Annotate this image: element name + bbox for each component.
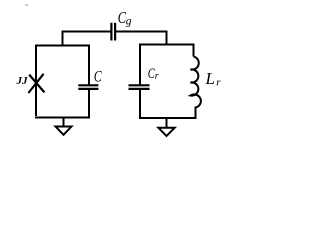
wire: right loop bottom horizontal [139,117,197,119]
capacitor C [78,85,98,89]
wire: left ground stem [63,118,65,127]
wire: right coupling stub vertical [166,32,168,46]
wire: left loop right vertical lower segment [88,90,90,118]
wire: top coupling horizontal left of Cg [62,31,111,33]
svg-text:L: L [205,69,215,88]
capacitor Cr [129,85,150,89]
label Cr [148,64,159,82]
wire: right loop top horizontal [139,44,195,46]
wire: right loop left vertical lower segment [139,90,141,119]
wire: right ground stem [166,118,168,128]
inductor Lr coil [191,57,201,108]
svg-text:r: r [216,77,221,89]
label Lr [205,69,222,89]
wire: left loop top horizontal [35,45,90,47]
svg-text:JJ: JJ [16,75,29,87]
wire: left coupling stub vertical [62,32,64,47]
wire: right loop right vertical lower stem [195,107,197,119]
wire: top coupling horizontal right of Cg [116,31,168,33]
transistor JJ (Josephson junction cross) [28,74,44,93]
capacitor Cg [111,23,115,41]
label Cg [118,10,132,28]
wire: left loop left vertical [35,46,37,117]
ground (left) [56,127,72,135]
scan speck [25,4,28,6]
ground (right) [158,128,174,136]
wire: left loop right vertical upper segment [88,46,90,86]
svg-text:g: g [126,16,132,28]
svg-text:r: r [155,71,159,82]
wire: right loop left vertical upper segment [139,45,141,86]
svg-text:C: C [94,68,102,86]
wire: left loop bottom horizontal [35,117,90,119]
wire: right loop right vertical upper stem [193,45,195,57]
